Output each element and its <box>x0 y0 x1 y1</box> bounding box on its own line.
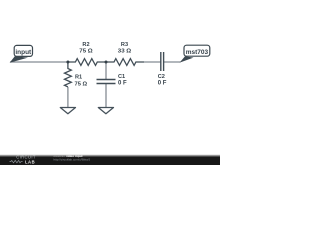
wire: C1 bottom lead to ground <box>105 84 107 108</box>
resistor R1 <box>65 62 72 87</box>
resistor R3 <box>106 59 144 66</box>
net flag input: box <box>14 45 32 56</box>
svg-text:input: input <box>15 49 32 56</box>
ground (below R1) <box>60 108 75 114</box>
svg-text:C2: C2 <box>158 74 165 80</box>
svg-text:33 Ω: 33 Ω <box>118 49 132 55</box>
svg-text:75 Ω: 75 Ω <box>75 81 88 87</box>
net flag mst703: box <box>184 45 210 56</box>
wire: C2 to mst703 tail <box>164 61 181 63</box>
ground (below C1) <box>98 108 113 114</box>
CircuitLab logo: zigzag <box>10 160 23 162</box>
resistor R2 <box>68 59 106 66</box>
node A junction dot (R1/R2) <box>66 61 69 64</box>
node B junction dot (R2/R3/C1) <box>105 61 108 64</box>
wire: R1 bottom lead to ground <box>67 87 69 108</box>
capacitor C1 <box>97 80 116 84</box>
svg-text:0 F: 0 F <box>118 81 127 87</box>
net flag input: tail <box>10 56 28 63</box>
svg-text:LAB: LAB <box>25 159 35 164</box>
wire: R3 right lead to C2 <box>144 61 161 63</box>
wire: C1 top lead <box>105 62 107 80</box>
svg-text:C1: C1 <box>118 74 125 80</box>
capacitor C2 <box>161 52 164 71</box>
svg-text:0 F: 0 F <box>158 81 167 87</box>
svg-text:mst703: mst703 <box>186 49 209 56</box>
svg-text:http:​//circuitlab.com/c/9bkcr: http:​//circuitlab.com/c/9bkcr5 <box>54 157 91 161</box>
svg-text:R2: R2 <box>82 42 89 48</box>
net flag mst703: tail <box>180 56 194 62</box>
svg-text:75 Ω: 75 Ω <box>79 49 93 55</box>
svg-text:R3: R3 <box>121 42 128 48</box>
svg-text:R1: R1 <box>75 74 82 80</box>
wire: input tail to node A <box>10 61 68 63</box>
